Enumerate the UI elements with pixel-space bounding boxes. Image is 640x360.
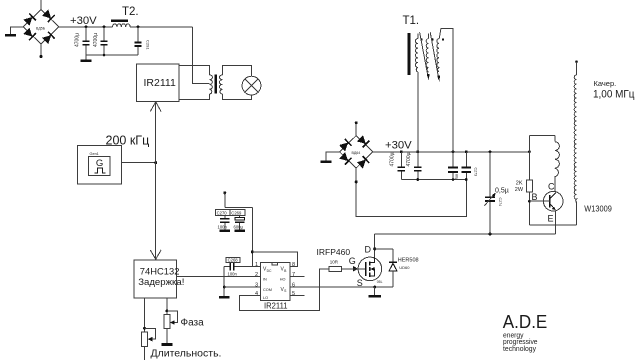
diode VD1 HER508 bbox=[389, 249, 397, 287]
diode D3 (SW) bbox=[23, 27, 36, 40]
diode D5 (NW) bbox=[339, 139, 352, 152]
gate arrowhead bbox=[353, 266, 358, 272]
svg-text:3: 3 bbox=[255, 283, 258, 289]
potentiometer R-duration body bbox=[142, 332, 148, 346]
capacitor C7 (wide) bbox=[462, 152, 478, 180]
svg-text:6: 6 bbox=[292, 283, 295, 289]
potentiometer R-phase body bbox=[164, 315, 170, 329]
pin4 LO wire loop under IC bbox=[239, 269, 329, 311]
svg-text:IR2111: IR2111 bbox=[144, 77, 176, 89]
svg-text:C273: C273 bbox=[473, 168, 477, 177]
diode D4 (SE) bbox=[42, 32, 55, 45]
diode D8 (SE) bbox=[357, 156, 370, 169]
ground G2 under C1 bbox=[85, 55, 87, 60]
svg-text:technology: technology bbox=[503, 344, 536, 353]
svg-text:2: 2 bbox=[255, 272, 258, 278]
transformer T3 secondary winding bbox=[219, 75, 222, 94]
svg-text:IR2111: IR2111 bbox=[264, 300, 288, 310]
diode D2 (NE) bbox=[42, 9, 55, 22]
svg-text:C269: C269 bbox=[231, 210, 242, 215]
svg-text:B: B bbox=[532, 192, 538, 202]
MOSFET source stubs with arrow bbox=[370, 269, 374, 276]
pin5 stub bbox=[290, 295, 305, 297]
svg-text:4700µ: 4700µ bbox=[74, 33, 80, 47]
+30V rail right bbox=[373, 151, 530, 153]
wire +30V feed down to transformer center tap bbox=[193, 27, 210, 84]
wire C268 left leg to ground bbox=[223, 266, 225, 296]
capacitor C5 4700u bbox=[406, 152, 421, 180]
svg-text:T1.: T1. bbox=[403, 15, 420, 27]
label frame C270 bbox=[215, 210, 230, 216]
svg-text:1: 1 bbox=[255, 262, 258, 268]
svg-text:S: S bbox=[357, 278, 363, 288]
pin7 stub bbox=[290, 276, 305, 278]
wire U1 to transformer primary top bbox=[179, 66, 210, 75]
T1 winding W2 bbox=[426, 39, 428, 72]
BR2 top terminal bbox=[355, 123, 357, 136]
secondary loop wires bbox=[222, 66, 251, 77]
svg-text:D: D bbox=[365, 244, 372, 254]
wire +30V rail bbox=[59, 26, 113, 28]
svg-text:74HC132: 74HC132 bbox=[140, 266, 180, 277]
svg-text:4700µ: 4700µ bbox=[390, 152, 396, 166]
T1 W3 polarity dot bbox=[442, 38, 444, 40]
lamp HL1 bbox=[242, 76, 261, 95]
MOSFET drain stub bbox=[370, 258, 374, 263]
svg-text:C: C bbox=[548, 181, 555, 191]
svg-text:7: 7 bbox=[292, 272, 295, 278]
potentiometer R-duration wire bbox=[144, 298, 146, 360]
svg-text:T2.: T2. bbox=[122, 6, 139, 18]
MOSFET gate wire inside bbox=[342, 268, 366, 270]
oscillator box bottom edge bbox=[529, 224, 576, 226]
svg-text:C270: C270 bbox=[217, 210, 228, 215]
potentiometer R-phase wire bbox=[166, 298, 168, 343]
potentiometer R-duration wiper loop bbox=[145, 328, 156, 339]
IC U1 IR2111 (high side driver box) bbox=[136, 64, 179, 102]
svg-text:+30V: +30V bbox=[385, 140, 412, 152]
svg-text:COM: COM bbox=[263, 288, 272, 292]
svg-text:Фаза: Фаза bbox=[181, 318, 205, 329]
wire generator output bbox=[122, 162, 156, 164]
notch bbox=[272, 263, 277, 266]
T1 core bar bbox=[408, 33, 411, 75]
svg-text:E: E bbox=[548, 214, 554, 224]
wire from BR1 top to page edge bbox=[40, 0, 42, 10]
wire down from terminal bbox=[224, 193, 226, 208]
T1 winding W1 bbox=[415, 39, 417, 72]
capacitor C270 100n bbox=[218, 216, 230, 230]
wire U1 to transformer primary bottom bbox=[179, 94, 210, 100]
Tesla resonator coil L3 bbox=[575, 61, 578, 64]
svg-text:DC: DC bbox=[267, 269, 272, 273]
node dot C3 top bbox=[137, 25, 140, 28]
MOSFET channel segments bbox=[369, 261, 371, 265]
svg-text:G: G bbox=[349, 256, 356, 266]
capacitor C6 (wide) bbox=[448, 152, 458, 180]
resistor R2 2K 2W vertical bbox=[528, 136, 530, 180]
svg-text:4: 4 bbox=[255, 291, 258, 297]
inductor T2 winding bbox=[113, 24, 131, 27]
base wire bbox=[529, 200, 543, 202]
capacitor C2 4700u bbox=[93, 27, 108, 55]
ground under source bbox=[369, 295, 381, 298]
svg-text:C291: C291 bbox=[146, 40, 151, 50]
generator G 200kHz outer box bbox=[78, 145, 122, 184]
svg-text:Качер.: Качер. bbox=[594, 79, 617, 88]
wire COM pin3 line bbox=[224, 286, 260, 288]
potentiometer R-phase wiper loop bbox=[167, 311, 177, 323]
svg-text:2W: 2W bbox=[515, 187, 524, 193]
svg-text:200 кГц: 200 кГц bbox=[106, 134, 150, 148]
source rail pin6 line bbox=[290, 286, 393, 288]
svg-text:A.D.E: A.D.E bbox=[503, 311, 548, 332]
rail over C270/C269 bbox=[225, 207, 253, 209]
capacitor C268 100n (vertical plates) bbox=[224, 257, 260, 276]
svg-text:ВД64: ВД64 bbox=[352, 151, 361, 155]
resistor R-gate 10R bbox=[329, 266, 342, 271]
IC U2 74HC132 delay box bbox=[134, 260, 177, 298]
oscillator box right edge up to coil bbox=[576, 202, 578, 225]
generator inner symbol box bbox=[89, 156, 110, 175]
wire clock bus vertical bbox=[155, 102, 157, 259]
svg-text:W13009: W13009 bbox=[584, 205, 612, 214]
T1 W3 top wire over and down bbox=[439, 28, 453, 152]
T1 adjust arrow 2 bbox=[430, 32, 438, 78]
svg-text:1,00 МГц: 1,00 МГц bbox=[593, 89, 635, 101]
svg-text:+30V: +30V bbox=[70, 15, 97, 27]
transformer T3 primary winding bbox=[209, 75, 212, 94]
diode bridge BR1 (mains rectifier, top left) bbox=[23, 9, 59, 44]
svg-text:IRFP460: IRFP460 bbox=[317, 247, 351, 257]
diode D1 (NW) bbox=[23, 13, 36, 26]
diode D6 (NE) bbox=[357, 135, 370, 148]
MOSFET gate bar bbox=[365, 262, 367, 276]
ground under R-phase bbox=[162, 343, 173, 346]
BR2 bottom wire to cap return bbox=[356, 168, 466, 216]
MOSFET VT1 body circle bbox=[358, 257, 382, 281]
T1 W2 polarity dot bbox=[431, 38, 433, 40]
branch to diode VD HER508 bbox=[375, 248, 393, 250]
wire from BR1 bottom with terminal dot bbox=[40, 44, 42, 56]
node dot C2 top bbox=[103, 25, 106, 28]
svg-text:100n: 100n bbox=[228, 272, 238, 277]
diode bridge BR2 (main rectifier) bbox=[339, 135, 373, 169]
svg-text:C268: C268 bbox=[228, 258, 239, 263]
caps bottom rail bbox=[401, 179, 466, 181]
node dot VCC branch bbox=[251, 250, 254, 253]
svg-text:05L: 05L bbox=[377, 280, 383, 284]
svg-text:G: G bbox=[96, 158, 103, 169]
capacitor C3 (C29) bbox=[134, 27, 150, 55]
ground G3 bbox=[321, 160, 332, 163]
svg-text:ВД5Б: ВД5Б bbox=[36, 26, 46, 30]
inductor T2 core bar bbox=[111, 20, 128, 22]
svg-text:4700µ: 4700µ bbox=[406, 152, 412, 166]
node dot C1 top bbox=[85, 25, 88, 28]
ground under C268 leg bbox=[219, 296, 230, 299]
svg-text:HER508: HER508 bbox=[398, 258, 419, 264]
svg-text:8: 8 bbox=[292, 262, 295, 268]
svg-text:UD60: UD60 bbox=[399, 265, 410, 270]
T1 W1 wire down to rail bbox=[417, 72, 419, 152]
arrowhead into U2 74HC132 (pointing down) bbox=[150, 250, 161, 259]
arrowhead into U1 (pointing up) bbox=[150, 102, 161, 112]
transformer T3 core bbox=[215, 75, 218, 94]
diode D7 (SW) bbox=[339, 152, 352, 165]
BR2 left to ground bbox=[326, 152, 339, 161]
ground under C269 bbox=[234, 230, 245, 233]
transistor VT2 W13009 bbox=[543, 191, 563, 211]
trimmer capacitor C8 0.5u bbox=[484, 152, 508, 234]
T1 adjust arrow 1 bbox=[420, 32, 428, 76]
wire rail down to pin1 node bbox=[251, 208, 253, 267]
capacitor C4 4700u bbox=[390, 152, 405, 180]
wire branch to pin 8 bbox=[252, 252, 297, 266]
T1 winding W3 bbox=[437, 39, 439, 72]
wire BR1 left to ground bbox=[11, 27, 24, 34]
square wave glyph bbox=[95, 168, 106, 173]
svg-text:IN: IN bbox=[263, 278, 267, 282]
wire U2 output to U3 pin2 bbox=[177, 276, 261, 278]
feedback inductor L2 bbox=[554, 136, 556, 142]
ground G1 bbox=[5, 34, 16, 37]
oscillator box top edge bbox=[529, 135, 554, 137]
wire after inductor bbox=[130, 26, 192, 28]
wire resistor to gate bbox=[342, 268, 353, 270]
label frame C269 bbox=[230, 210, 245, 216]
T1 W1 polarity dot bbox=[420, 38, 422, 40]
drain bus to oscillator bbox=[375, 233, 556, 235]
svg-text:HO: HO bbox=[280, 278, 286, 282]
node dot gen output bbox=[154, 161, 157, 164]
svg-text:0,5µ: 0,5µ bbox=[495, 188, 509, 195]
supply node terminal dot above C270 bbox=[223, 191, 226, 194]
svg-text:10R: 10R bbox=[330, 260, 339, 265]
bottom rail of filter caps bbox=[86, 54, 138, 56]
svg-text:5: 5 bbox=[292, 291, 295, 297]
IC U3 IR2111 DIP8 body bbox=[260, 263, 290, 301]
svg-text:4700µ: 4700µ bbox=[93, 33, 99, 47]
svg-text:C274: C274 bbox=[498, 198, 502, 207]
capacitor C1 4700u bbox=[74, 27, 89, 55]
svg-text:Задержка!: Задержка! bbox=[138, 277, 184, 288]
source down to ground bbox=[374, 287, 376, 295]
svg-text:2K: 2K bbox=[516, 180, 523, 186]
emitter wire down bbox=[555, 210, 557, 234]
capacitor C269 680u electrolytic bbox=[234, 216, 245, 230]
svg-text:100n: 100n bbox=[218, 224, 228, 229]
svg-text:Gen1: Gen1 bbox=[90, 152, 99, 156]
svg-text:Длительность.: Длительность. bbox=[151, 348, 222, 360]
ground under C270 bbox=[219, 230, 230, 233]
svg-text:600µ: 600µ bbox=[234, 224, 244, 229]
drain wire up bbox=[374, 234, 376, 257]
